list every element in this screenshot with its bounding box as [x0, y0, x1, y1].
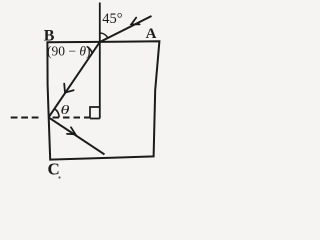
- incident ray: [100, 16, 152, 42]
- dashed normal at left face, outside block: [11, 117, 39, 119]
- normal line at top face: [99, 3, 101, 119]
- glass block outline (quadrilateral B A bottom-right C): [47, 41, 159, 159]
- refracted ray: [49, 42, 100, 117]
- paper background: [0, 0, 178, 182]
- speck after C: [58, 176, 60, 178]
- svg-text:B: B: [44, 28, 55, 45]
- svg-text:C: C: [48, 160, 60, 179]
- (90 - theta) arc: [87, 47, 92, 54]
- svg-text:A: A: [146, 26, 157, 42]
- svg-text:(90 − θ): (90 − θ): [47, 44, 91, 59]
- reflected ray: [49, 117, 105, 154]
- right-angle mark: [90, 107, 100, 119]
- dashed normal at left face, inside block: [53, 117, 91, 119]
- 45 degree arc: [100, 33, 108, 38]
- incident ray arrowhead: [131, 18, 139, 25]
- reflected ray arrowhead: [67, 127, 75, 134]
- refracted ray arrowhead: [64, 84, 73, 93]
- svg-text:45°: 45°: [102, 11, 123, 27]
- svg-text:θ: θ: [61, 104, 70, 118]
- theta arc: [55, 109, 60, 118]
